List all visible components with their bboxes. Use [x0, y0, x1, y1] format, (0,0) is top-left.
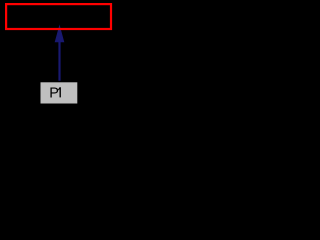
svg-text:P: P — [49, 85, 59, 101]
red node box (truncated/current node, empty) — [6, 4, 111, 29]
arrowhead (points up at red node) — [55, 26, 64, 42]
wire: edge shaft from node P1 up to red node — [58, 40, 60, 82]
node P1 box — [40, 82, 78, 105]
label P1: digit 1 (drawn path) — [58, 87, 61, 97]
background — [0, 0, 117, 112]
